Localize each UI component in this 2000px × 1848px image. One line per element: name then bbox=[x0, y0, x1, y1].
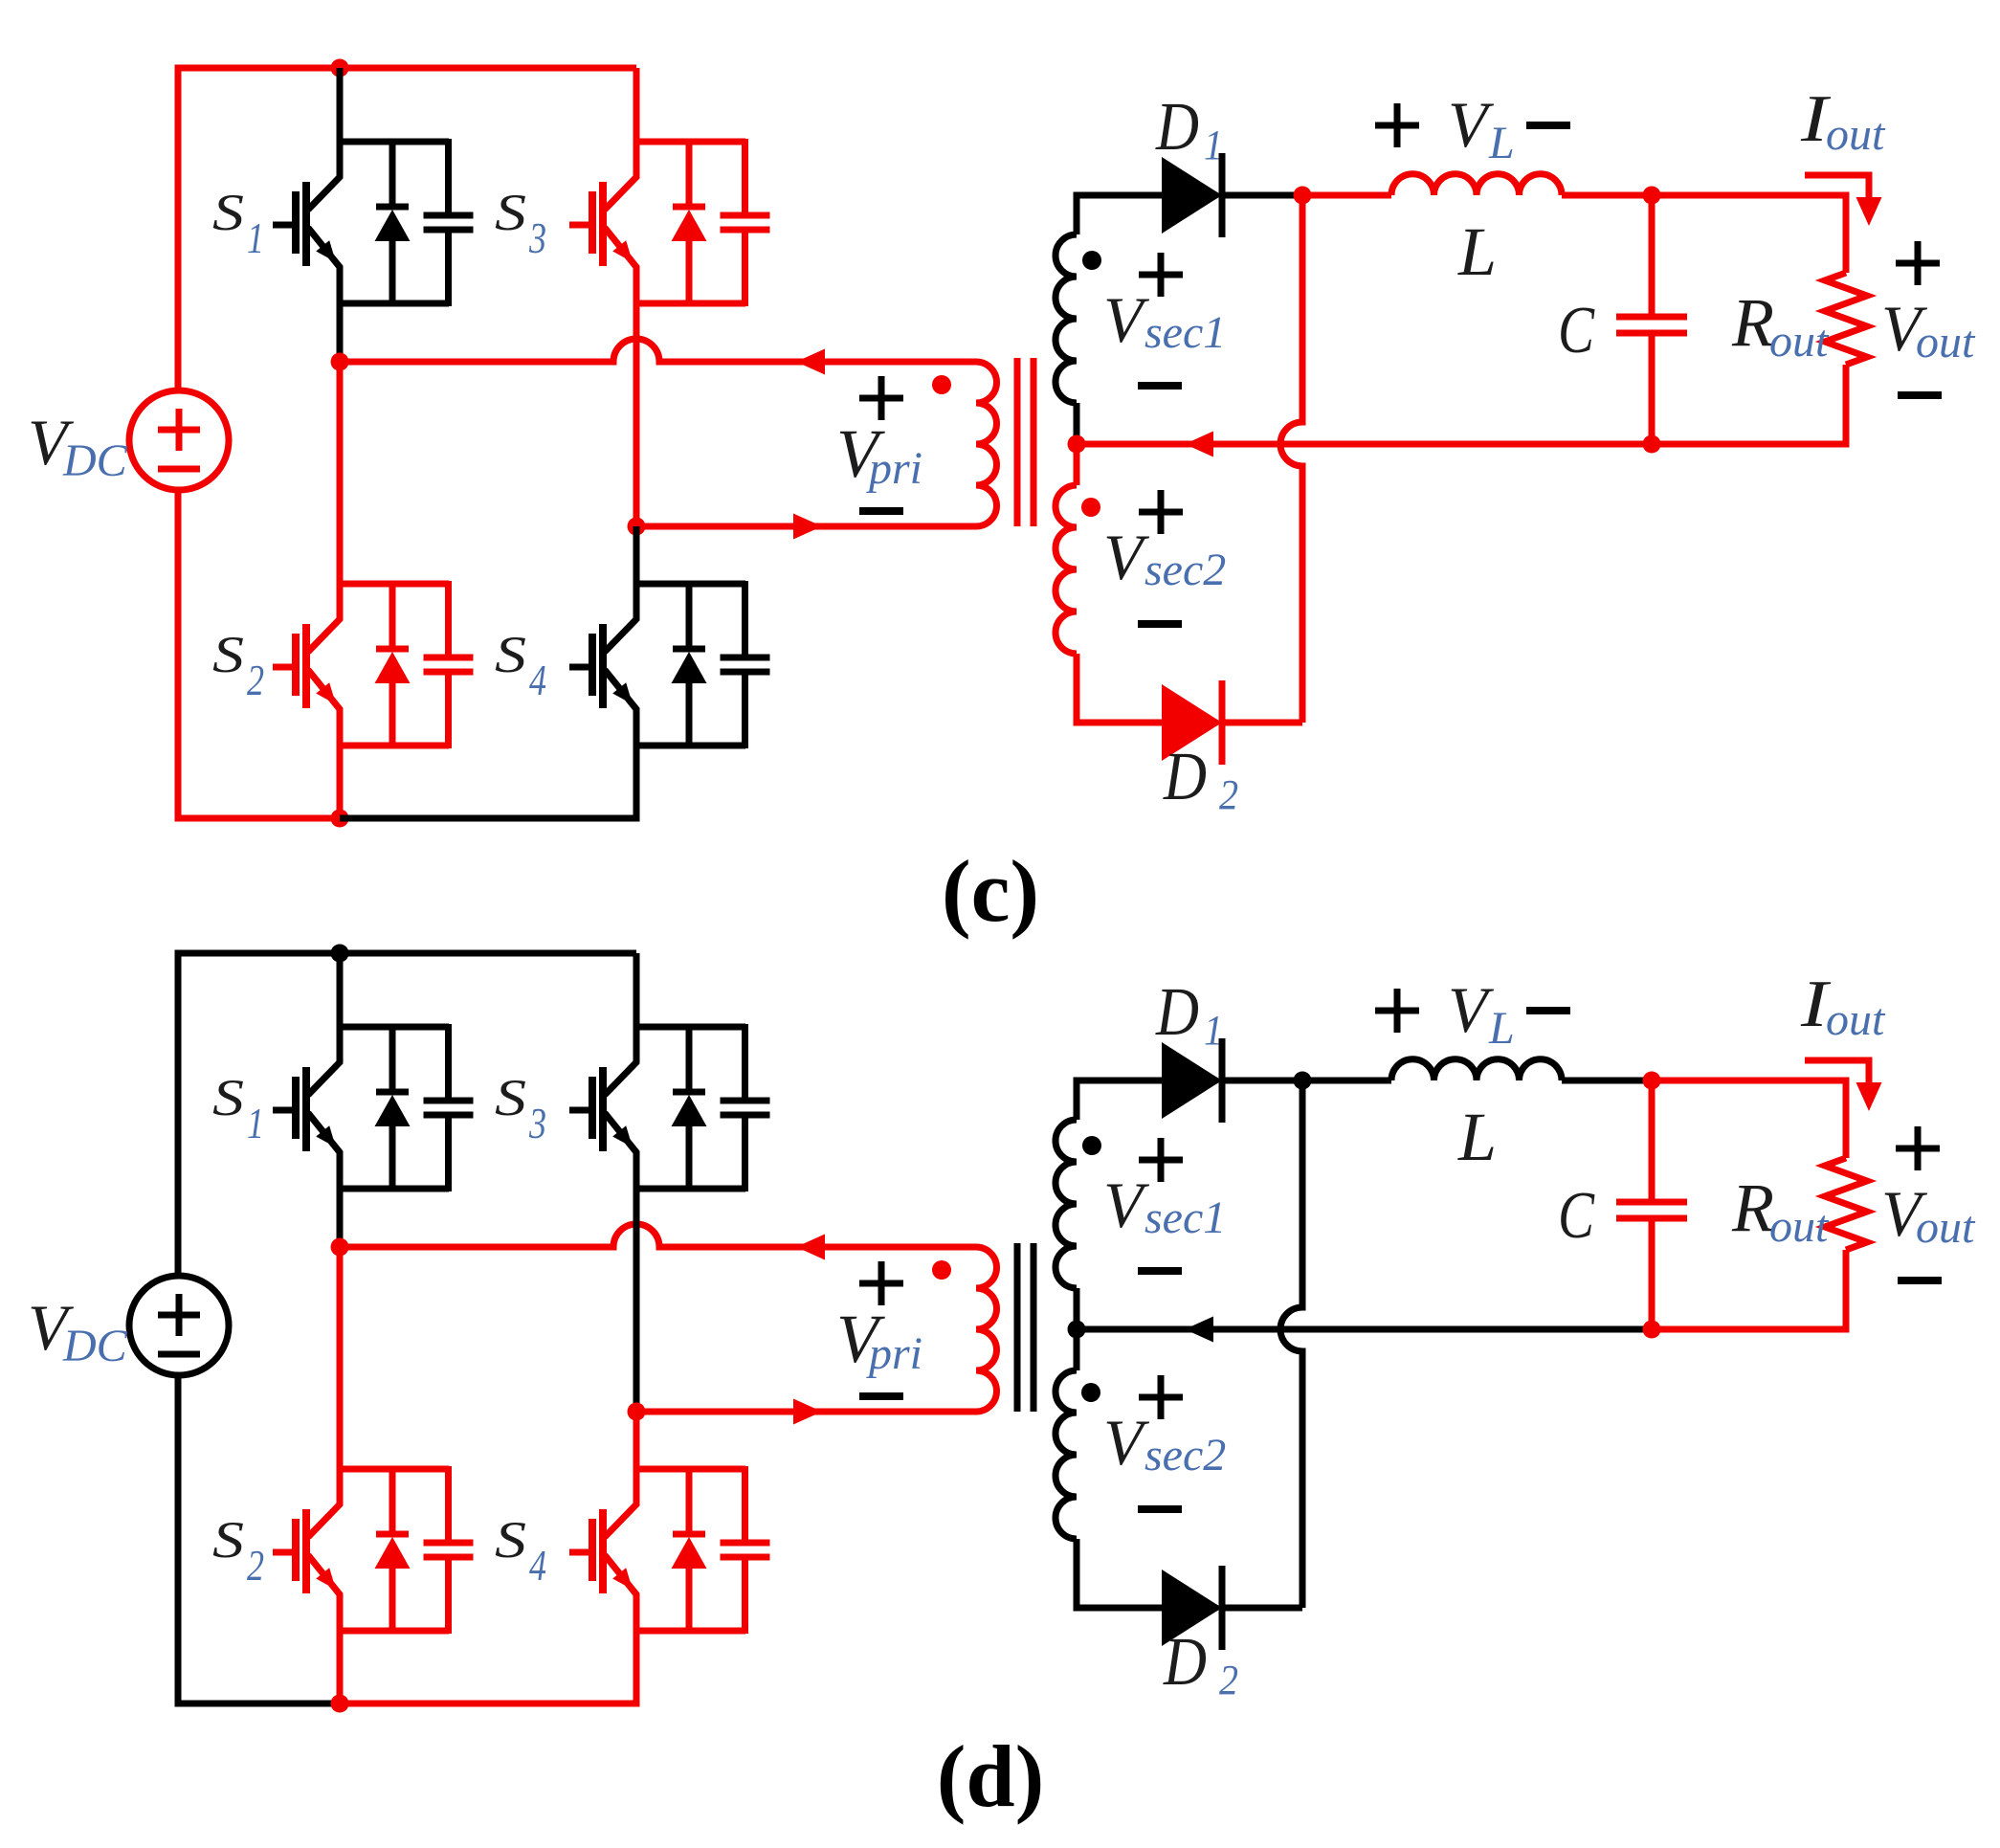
wire D1 cathode to junction (fig d) bbox=[1222, 1078, 1302, 1084]
svg-text:C: C bbox=[1558, 1179, 1595, 1253]
label Vsec2 minus (fig d) bbox=[1138, 1505, 1182, 1513]
capacitor snubber of S4 (fig d) top lead bbox=[742, 1466, 748, 1543]
svg-text:2: 2 bbox=[1219, 771, 1238, 818]
svg-text:DC: DC bbox=[62, 435, 128, 486]
transistor S1 (fig c) IGBT emitter lead bbox=[308, 228, 340, 303]
svg-text:S: S bbox=[495, 626, 526, 683]
capacitor snubber of S3 (fig c) top lead bbox=[742, 139, 748, 215]
node secondary Vsec1 polarity dot (fig c) bbox=[1082, 251, 1101, 270]
node primary polarity dot (fig c) bbox=[932, 375, 951, 394]
svg-text:sec2: sec2 bbox=[1144, 545, 1226, 595]
svg-text:out: out bbox=[1826, 994, 1886, 1045]
diode antiparallel of S3 (fig d) cathode lead bbox=[686, 1024, 693, 1094]
arrow current into center tap (fig c) bbox=[1185, 432, 1213, 457]
wire transformer core bar right (fig c) bbox=[1031, 358, 1037, 526]
svg-text:out: out bbox=[1769, 1201, 1830, 1252]
capacitor snubber of S2 (fig c) top plate bbox=[424, 655, 474, 661]
svg-text:S: S bbox=[495, 184, 526, 241]
label Vout minus (fig d) bbox=[1898, 1277, 1942, 1284]
transistor S3 (fig c) IGBT collector lead bbox=[605, 139, 636, 210]
diode D1 (fig c) cathode bar bbox=[1219, 153, 1226, 237]
capacitor C bottom lead (fig d) bbox=[1649, 1218, 1656, 1329]
node primary polarity dot (fig d) bbox=[932, 1260, 951, 1280]
diode antiparallel of S2 (fig d) triangle bbox=[375, 1537, 411, 1569]
wire S2 top leg (fig c) bbox=[337, 362, 344, 584]
transistor S1 (fig d) IGBT gate bar bbox=[292, 1077, 300, 1139]
transistor S2 (fig c) IGBT collector lead bbox=[308, 581, 340, 652]
transistor S1 (fig c) IGBT body bar bbox=[302, 182, 310, 266]
svg-text:D: D bbox=[1155, 88, 1199, 165]
capacitor snubber of S3 (fig d) bottom plate bbox=[721, 1112, 770, 1119]
transistor S1 (fig d) IGBT body bar bbox=[302, 1067, 310, 1151]
diode antiparallel of S2 (fig c) cathode lead bbox=[389, 581, 396, 651]
wire inductor to C node (fig c) bbox=[1562, 192, 1652, 199]
label Vsec2 plus (fig c) bbox=[1139, 509, 1183, 516]
transistor S2 (fig d) IGBT collector lead bbox=[308, 1466, 340, 1537]
capacitor snubber of S2 (fig d) bottom lead bbox=[445, 1557, 452, 1634]
transistor S2 (fig c) IGBT emitter lead bbox=[308, 670, 340, 746]
transistor S2 (fig c) IGBT body bar bbox=[302, 624, 310, 708]
svg-text:out: out bbox=[1826, 109, 1886, 160]
wire load branch top (fig d) bbox=[1652, 1080, 1846, 1158]
transistor S3 (fig d) IGBT gate bar bbox=[589, 1077, 596, 1139]
svg-text:out: out bbox=[1916, 317, 1976, 367]
svg-text:L: L bbox=[1457, 1099, 1497, 1175]
inductor L output filter (fig c) bbox=[1391, 174, 1562, 195]
svg-text:S: S bbox=[212, 184, 244, 241]
wire load branch bottom (fig c) bbox=[1652, 365, 1846, 444]
wire S2 (fig c) cell top rail bbox=[340, 581, 449, 588]
svg-text:S: S bbox=[495, 1511, 526, 1569]
transistor S2 (fig c) IGBT emitter arrow bbox=[316, 682, 336, 704]
wire transformer core bar right (fig d) bbox=[1031, 1243, 1037, 1412]
diode antiparallel of S3 (fig d) cathode bar bbox=[673, 1089, 705, 1096]
svg-text:1: 1 bbox=[247, 1099, 264, 1147]
capacitor C top lead (fig d) bbox=[1649, 1080, 1656, 1202]
wire S2 top leg (fig d) bbox=[337, 1247, 344, 1469]
arrow Iout output current (fig c) bbox=[1805, 175, 1869, 199]
diode antiparallel of S4 (fig c) cathode bar bbox=[673, 646, 705, 653]
wire output rail D1 to inductor (fig c) bbox=[1302, 192, 1391, 199]
wire S2 (fig c) cell bottom rail bbox=[340, 743, 449, 749]
label Vsec2 plus (fig d) bbox=[1139, 1394, 1183, 1401]
wire S3 (fig c) cell top rail bbox=[636, 139, 745, 145]
diode D1 (fig d) cathode bar bbox=[1219, 1038, 1226, 1123]
label Vsec2 minus (fig c) bbox=[1138, 620, 1182, 628]
diode D1 (fig d) triangle bbox=[1162, 1042, 1222, 1119]
wire secondary bottom lead to D2 (fig d) bbox=[1077, 1539, 1162, 1608]
svg-text:2: 2 bbox=[247, 656, 264, 704]
svg-text:sec1: sec1 bbox=[1144, 307, 1226, 358]
label VL plus (fig d) bbox=[1375, 1008, 1419, 1014]
resistor Rout zigzag (fig c) bbox=[1825, 273, 1867, 365]
transistor S4 (fig d) IGBT emitter arrow bbox=[612, 1568, 633, 1590]
svg-text:D: D bbox=[1155, 973, 1199, 1050]
transistor S2 (fig d) IGBT gate bar bbox=[292, 1519, 300, 1581]
node C top junction dot (fig d) bbox=[1643, 1072, 1661, 1090]
svg-text:C: C bbox=[1558, 294, 1595, 367]
svg-text:L: L bbox=[1488, 118, 1515, 168]
capacitor C top plate (fig d) bbox=[1616, 1199, 1687, 1206]
capacitor snubber of S1 (fig c) bottom plate bbox=[424, 227, 474, 234]
wire S2 bottom leg (fig d) bbox=[337, 1631, 344, 1703]
node center tap junction dot (fig c) bbox=[1068, 435, 1086, 454]
wire S4 top leg from node B (fig c) bbox=[633, 526, 640, 584]
node bottom bus junction dot (fig c) bbox=[331, 810, 349, 828]
svg-text:R: R bbox=[1731, 284, 1774, 361]
transistor S3 (fig d) IGBT collector lead bbox=[605, 1024, 636, 1095]
svg-text:out: out bbox=[1916, 1202, 1976, 1253]
transistor S1 (fig d) IGBT emitter lead bbox=[308, 1113, 340, 1189]
node B junction dot (fig d) bbox=[628, 1403, 646, 1421]
wire inductor to C node (fig d) bbox=[1562, 1078, 1652, 1084]
wire DC bus bottom-left (fig c) bbox=[178, 490, 340, 818]
svg-text:L: L bbox=[1488, 1003, 1515, 1054]
wire node A line to primary with hop over S3 leg (fig d) bbox=[340, 1224, 976, 1247]
wire node B line to primary bottom (fig d) bbox=[636, 1409, 976, 1415]
diode antiparallel of S3 (fig c) cathode lead bbox=[686, 139, 693, 209]
node B junction dot (fig c) bbox=[628, 518, 646, 536]
arrow Iout output current (fig d) bbox=[1805, 1060, 1869, 1084]
wire S1 bottom leg to node A (fig c) bbox=[337, 303, 344, 362]
diode antiparallel of S1 (fig c) triangle bbox=[375, 210, 411, 241]
wire rectifier link vertical with hop over output return (fig c) bbox=[1280, 195, 1302, 723]
capacitor snubber of S4 (fig c) bottom lead bbox=[742, 672, 748, 748]
arrow current out of primary bottom (fig c) bbox=[793, 514, 822, 540]
svg-text:2: 2 bbox=[247, 1541, 264, 1590]
node top bus junction dot (fig d) bbox=[331, 945, 349, 963]
label VL minus (fig c) bbox=[1526, 122, 1570, 129]
transistor S3 (fig d) IGBT gate lead bbox=[569, 1107, 592, 1114]
transistor S1 (fig d) IGBT collector lead bbox=[308, 1024, 340, 1095]
wire S4 top leg from node B (fig d) bbox=[633, 1412, 640, 1469]
capacitor snubber of S1 (fig c) bottom lead bbox=[445, 230, 452, 306]
capacitor snubber of S4 (fig d) top plate bbox=[721, 1540, 770, 1547]
diode antiparallel of S4 (fig d) triangle bbox=[672, 1537, 707, 1569]
transistor S4 (fig d) IGBT body bar bbox=[599, 1509, 607, 1593]
voltage source VDC circle (fig c) bbox=[129, 390, 229, 490]
svg-text:1: 1 bbox=[247, 213, 264, 262]
wire S3 (fig d) cell top rail bbox=[636, 1024, 745, 1031]
wire transformer core bar left (fig d) bbox=[1014, 1243, 1021, 1412]
diode antiparallel of S1 (fig d) cathode lead bbox=[389, 1024, 396, 1094]
inductor transformer secondary winding Vsec1 (fig c) bbox=[1056, 234, 1077, 403]
inductor transformer secondary winding Vsec2 (fig c) bbox=[1056, 485, 1077, 654]
diode D2 (fig c) triangle bbox=[1162, 684, 1222, 761]
wire S3 top leg (fig c) bbox=[633, 68, 640, 142]
wire output return rail center tap to C node (fig d) bbox=[1077, 1326, 1652, 1333]
diode antiparallel of S1 (fig d) anode lead bbox=[389, 1124, 396, 1191]
diode antiparallel of S3 (fig d) anode lead bbox=[686, 1124, 693, 1191]
diode D2 (fig d) cathode bar bbox=[1219, 1566, 1226, 1650]
svg-text:1: 1 bbox=[1204, 122, 1223, 168]
wire S1 (fig c) cell bottom rail bbox=[340, 301, 449, 307]
wire S1 (fig d) cell top rail bbox=[340, 1024, 449, 1031]
wire S4 (fig c) cell top rail bbox=[636, 581, 745, 588]
svg-text:D: D bbox=[1163, 1623, 1207, 1700]
capacitor snubber of S1 (fig d) bottom lead bbox=[445, 1115, 452, 1191]
capacitor snubber of S1 (fig c) top plate bbox=[424, 212, 474, 219]
wire S1 top leg (fig c) bbox=[337, 68, 344, 142]
transistor S4 (fig c) IGBT emitter lead bbox=[605, 670, 636, 746]
wire node B line to primary bottom (fig c) bbox=[636, 523, 976, 530]
capacitor C top lead (fig c) bbox=[1649, 195, 1656, 317]
capacitor snubber of S2 (fig c) bottom lead bbox=[445, 672, 452, 748]
label Vout plus (fig c) bbox=[1896, 260, 1940, 267]
transistor S3 (fig d) IGBT body bar bbox=[599, 1067, 607, 1151]
diode antiparallel of S4 (fig d) anode lead bbox=[686, 1566, 693, 1634]
transistor S1 (fig c) IGBT emitter arrow bbox=[316, 240, 336, 262]
label Vsec1 minus (fig c) bbox=[1138, 382, 1182, 390]
svg-text:4: 4 bbox=[529, 1541, 546, 1590]
wire load branch top (fig c) bbox=[1652, 195, 1846, 273]
transistor S2 (fig d) IGBT body bar bbox=[302, 1509, 310, 1593]
wire DC bus bottom-left (fig d) bbox=[178, 1375, 340, 1703]
diode antiparallel of S1 (fig c) cathode bar bbox=[376, 204, 409, 211]
diode antiparallel of S3 (fig c) cathode bar bbox=[673, 204, 705, 211]
capacitor snubber of S1 (fig d) bottom plate bbox=[424, 1112, 474, 1119]
transistor S3 (fig c) IGBT body bar bbox=[599, 182, 607, 266]
svg-text:L: L bbox=[1457, 213, 1497, 290]
svg-text:DC: DC bbox=[62, 1321, 128, 1371]
transistor S2 (fig d) IGBT emitter lead bbox=[308, 1555, 340, 1631]
label Vsec1 plus (fig c) bbox=[1139, 272, 1183, 278]
svg-text:D: D bbox=[1163, 738, 1207, 814]
transistor S3 (fig d) IGBT emitter lead bbox=[605, 1113, 636, 1189]
inductor L output filter (fig d) bbox=[1391, 1059, 1562, 1080]
wire secondary top lead to D1 (fig d) bbox=[1077, 1080, 1162, 1120]
wire S4 (fig c) cell bottom rail bbox=[636, 743, 745, 749]
capacitor snubber of S4 (fig c) top plate bbox=[721, 655, 770, 661]
wire secondary top lead to D1 (fig c) bbox=[1077, 195, 1162, 234]
wire S1 (fig c) cell top rail bbox=[340, 139, 449, 145]
wire S1 bottom leg to node A (fig d) bbox=[337, 1189, 344, 1247]
capacitor C bottom plate (fig c) bbox=[1616, 330, 1687, 337]
label Vpri plus (fig c) bbox=[859, 395, 903, 402]
wire S3 bottom leg to node B (fig c) bbox=[633, 303, 640, 526]
transistor S2 (fig d) IGBT emitter arrow bbox=[316, 1568, 336, 1590]
label Vout plus (fig d) bbox=[1896, 1146, 1940, 1152]
capacitor snubber of S3 (fig d) bottom lead bbox=[742, 1115, 748, 1191]
wire S3 top leg (fig d) bbox=[633, 953, 640, 1027]
node C top junction dot (fig c) bbox=[1643, 187, 1661, 205]
wire S4 (fig d) cell top rail bbox=[636, 1466, 745, 1473]
label Vpri plus (fig d) bbox=[859, 1280, 903, 1287]
transistor S4 (fig c) IGBT emitter arrow bbox=[612, 682, 633, 704]
label VL minus (fig d) bbox=[1526, 1007, 1570, 1014]
svg-text:sec1: sec1 bbox=[1144, 1192, 1226, 1243]
capacitor snubber of S3 (fig d) top plate bbox=[721, 1098, 770, 1104]
diode antiparallel of S3 (fig d) triangle bbox=[672, 1095, 707, 1126]
transistor S3 (fig c) IGBT gate bar bbox=[589, 191, 596, 254]
svg-text:(d): (d) bbox=[937, 1727, 1044, 1825]
label Vsec1 plus (fig d) bbox=[1139, 1157, 1183, 1164]
node secondary Vsec1 polarity dot (fig d) bbox=[1082, 1136, 1101, 1155]
svg-text:1: 1 bbox=[1204, 1007, 1223, 1054]
node center tap junction dot (fig d) bbox=[1068, 1321, 1086, 1339]
wire S1 top leg (fig d) bbox=[337, 953, 344, 1027]
capacitor snubber of S1 (fig d) top plate bbox=[424, 1098, 474, 1104]
wire output return rail center tap to C node (fig c) bbox=[1077, 441, 1652, 448]
capacitor snubber of S3 (fig c) bottom lead bbox=[742, 230, 748, 306]
svg-text:4: 4 bbox=[529, 656, 546, 704]
diode D2 (fig d) triangle bbox=[1162, 1570, 1222, 1646]
inductor transformer secondary winding Vsec2 (fig d) bbox=[1056, 1370, 1077, 1539]
wire bottom bus right + S4 bottom leg (fig c) bbox=[340, 746, 636, 818]
wire secondary bottom lead to D2 (fig c) bbox=[1077, 654, 1162, 723]
voltage source VDC plus mark (fig d) bbox=[158, 1312, 200, 1319]
diode D2 (fig c) cathode bar bbox=[1219, 680, 1226, 765]
transistor S4 (fig d) IGBT gate bar bbox=[589, 1519, 596, 1581]
wire DC bus top (fig d) bbox=[178, 953, 636, 1276]
voltage source VDC minus mark (fig d) bbox=[158, 1351, 200, 1358]
diode antiparallel of S3 (fig c) triangle bbox=[672, 210, 707, 241]
capacitor C bottom plate (fig d) bbox=[1616, 1215, 1687, 1222]
capacitor snubber of S2 (fig d) top lead bbox=[445, 1466, 452, 1543]
svg-text:pri: pri bbox=[866, 443, 922, 494]
wire S3 bottom leg to node B (fig d) bbox=[633, 1189, 640, 1412]
svg-text:(c): (c) bbox=[942, 842, 1039, 940]
wire output rail D1 to inductor (fig d) bbox=[1302, 1078, 1391, 1084]
svg-text:3: 3 bbox=[528, 1099, 546, 1147]
node A junction dot (fig d) bbox=[331, 1238, 349, 1257]
diode antiparallel of S4 (fig d) cathode lead bbox=[686, 1466, 693, 1536]
diode antiparallel of S2 (fig c) anode lead bbox=[389, 680, 396, 748]
node C bottom junction dot (fig d) bbox=[1643, 1321, 1661, 1339]
wire load branch bottom (fig d) bbox=[1652, 1250, 1846, 1329]
diode antiparallel of S2 (fig d) cathode lead bbox=[389, 1466, 396, 1536]
wire transformer core bar left (fig c) bbox=[1014, 358, 1021, 526]
capacitor snubber of S2 (fig d) top plate bbox=[424, 1540, 474, 1547]
inductor transformer primary winding Vpri (fig d) bbox=[976, 1247, 997, 1412]
capacitor snubber of S4 (fig c) bottom plate bbox=[721, 669, 770, 676]
diode D1 (fig c) triangle bbox=[1162, 157, 1222, 234]
svg-text:S: S bbox=[212, 1069, 244, 1126]
capacitor C bottom lead (fig c) bbox=[1649, 333, 1656, 444]
svg-text:S: S bbox=[212, 626, 244, 683]
node D1 output junction dot (fig c) bbox=[1294, 187, 1312, 205]
arrow current into primary top (fig c) bbox=[796, 349, 825, 375]
label VL plus (fig c) bbox=[1375, 122, 1419, 129]
wire D2 cathode to link corner (fig d) bbox=[1222, 1605, 1302, 1612]
wire D2 cathode to link corner (fig c) bbox=[1222, 720, 1302, 726]
transistor S4 (fig d) IGBT emitter lead bbox=[605, 1555, 636, 1631]
diode antiparallel of S1 (fig c) anode lead bbox=[389, 238, 396, 306]
node bottom bus junction dot (fig d) bbox=[331, 1695, 349, 1713]
transistor S3 (fig c) IGBT emitter arrow bbox=[612, 240, 633, 262]
transistor S1 (fig d) IGBT emitter arrow bbox=[316, 1125, 336, 1147]
wire S2 bottom leg (fig c) bbox=[337, 746, 344, 818]
arrow current out of primary bottom (fig d) bbox=[793, 1399, 822, 1425]
svg-text:R: R bbox=[1731, 1169, 1774, 1246]
capacitor snubber of S2 (fig c) bottom plate bbox=[424, 669, 474, 676]
wire secondary spine above center tap (fig c) bbox=[1074, 403, 1080, 444]
node D1 output junction dot (fig d) bbox=[1294, 1072, 1312, 1090]
transistor S4 (fig c) IGBT gate bar bbox=[589, 634, 596, 696]
transistor S1 (fig c) IGBT collector lead bbox=[308, 139, 340, 210]
wire secondary spine below center tap (fig c) bbox=[1074, 444, 1080, 485]
inductor transformer primary winding Vpri (fig c) bbox=[976, 362, 997, 526]
transistor S4 (fig d) IGBT gate lead bbox=[569, 1549, 592, 1556]
wire bottom bus right + S4 bottom leg (fig d) bbox=[340, 1631, 636, 1703]
diode antiparallel of S2 (fig c) triangle bbox=[375, 652, 411, 683]
wire S1 (fig d) cell bottom rail bbox=[340, 1186, 449, 1192]
svg-text:out: out bbox=[1769, 316, 1830, 367]
wire S4 (fig d) cell bottom rail bbox=[636, 1628, 745, 1635]
transistor S3 (fig d) IGBT emitter arrow bbox=[612, 1125, 633, 1147]
wire S2 (fig d) cell top rail bbox=[340, 1466, 449, 1473]
transistor S4 (fig c) IGBT body bar bbox=[599, 624, 607, 708]
wire S3 (fig c) cell bottom rail bbox=[636, 301, 745, 307]
capacitor snubber of S3 (fig c) bottom plate bbox=[721, 227, 770, 234]
node secondary Vsec2 polarity dot (fig c) bbox=[1081, 498, 1100, 517]
diode antiparallel of S2 (fig d) anode lead bbox=[389, 1566, 396, 1634]
voltage source VDC circle (fig d) bbox=[129, 1276, 229, 1375]
node C bottom junction dot (fig c) bbox=[1643, 435, 1661, 454]
svg-text:pri: pri bbox=[866, 1328, 922, 1379]
transistor S1 (fig c) IGBT gate lead bbox=[273, 222, 296, 229]
diode antiparallel of S3 (fig c) anode lead bbox=[686, 238, 693, 306]
transistor S2 (fig c) IGBT gate bar bbox=[292, 634, 300, 696]
diode antiparallel of S1 (fig d) triangle bbox=[375, 1095, 411, 1126]
label Vpri minus (fig d) bbox=[859, 1392, 903, 1400]
voltage source VDC plus mark (fig c) bbox=[158, 427, 200, 434]
wire D1 cathode to junction (fig c) bbox=[1222, 192, 1302, 199]
arrow current into primary top (fig d) bbox=[796, 1235, 825, 1260]
diode antiparallel of S1 (fig c) cathode lead bbox=[389, 139, 396, 209]
transistor S2 (fig c) IGBT gate lead bbox=[273, 664, 296, 671]
diode antiparallel of S4 (fig c) triangle bbox=[672, 652, 707, 683]
capacitor snubber of S1 (fig c) top lead bbox=[445, 139, 452, 215]
node A junction dot (fig c) bbox=[331, 353, 349, 371]
transistor S3 (fig c) IGBT gate lead bbox=[569, 222, 592, 229]
wire secondary spine below center tap (fig d) bbox=[1074, 1329, 1080, 1370]
diode antiparallel of S2 (fig d) cathode bar bbox=[376, 1531, 409, 1538]
svg-text:S: S bbox=[212, 1511, 244, 1569]
wire secondary spine above center tap (fig d) bbox=[1074, 1288, 1080, 1329]
wire DC bus top (fig c) bbox=[178, 68, 636, 390]
diode antiparallel of S4 (fig c) cathode lead bbox=[686, 581, 693, 651]
transistor S4 (fig d) IGBT collector lead bbox=[605, 1466, 636, 1537]
capacitor C top plate (fig c) bbox=[1616, 314, 1687, 321]
capacitor snubber of S3 (fig d) top lead bbox=[742, 1024, 748, 1101]
capacitor snubber of S2 (fig c) top lead bbox=[445, 581, 452, 657]
wire node A line to primary with hop over S3 leg (fig c) bbox=[340, 339, 976, 362]
transistor S4 (fig c) IGBT collector lead bbox=[605, 581, 636, 652]
capacitor snubber of S4 (fig c) top lead bbox=[742, 581, 748, 657]
label Vpri minus (fig c) bbox=[859, 507, 903, 515]
svg-text:sec2: sec2 bbox=[1144, 1430, 1226, 1481]
inductor transformer secondary winding Vsec1 (fig d) bbox=[1056, 1120, 1077, 1288]
voltage source VDC minus mark (fig c) bbox=[158, 466, 200, 473]
wire S3 (fig d) cell bottom rail bbox=[636, 1186, 745, 1192]
diode antiparallel of S2 (fig c) cathode bar bbox=[376, 646, 409, 653]
transistor S3 (fig c) IGBT emitter lead bbox=[605, 228, 636, 303]
svg-text:2: 2 bbox=[1219, 1657, 1238, 1703]
wire S2 (fig d) cell bottom rail bbox=[340, 1628, 449, 1635]
diode antiparallel of S4 (fig c) anode lead bbox=[686, 680, 693, 748]
capacitor snubber of S4 (fig d) bottom lead bbox=[742, 1557, 748, 1634]
node top bus junction dot (fig c) bbox=[331, 59, 349, 78]
svg-text:S: S bbox=[495, 1069, 526, 1126]
label Vsec1 minus (fig d) bbox=[1138, 1267, 1182, 1275]
capacitor snubber of S4 (fig d) bottom plate bbox=[721, 1554, 770, 1561]
capacitor snubber of S2 (fig d) bottom plate bbox=[424, 1554, 474, 1561]
wire rectifier link vertical with hop over output return (fig d) bbox=[1280, 1080, 1302, 1608]
svg-text:3: 3 bbox=[528, 213, 546, 262]
arrow current into center tap (fig d) bbox=[1185, 1317, 1213, 1343]
label Vout minus (fig c) bbox=[1898, 391, 1942, 399]
